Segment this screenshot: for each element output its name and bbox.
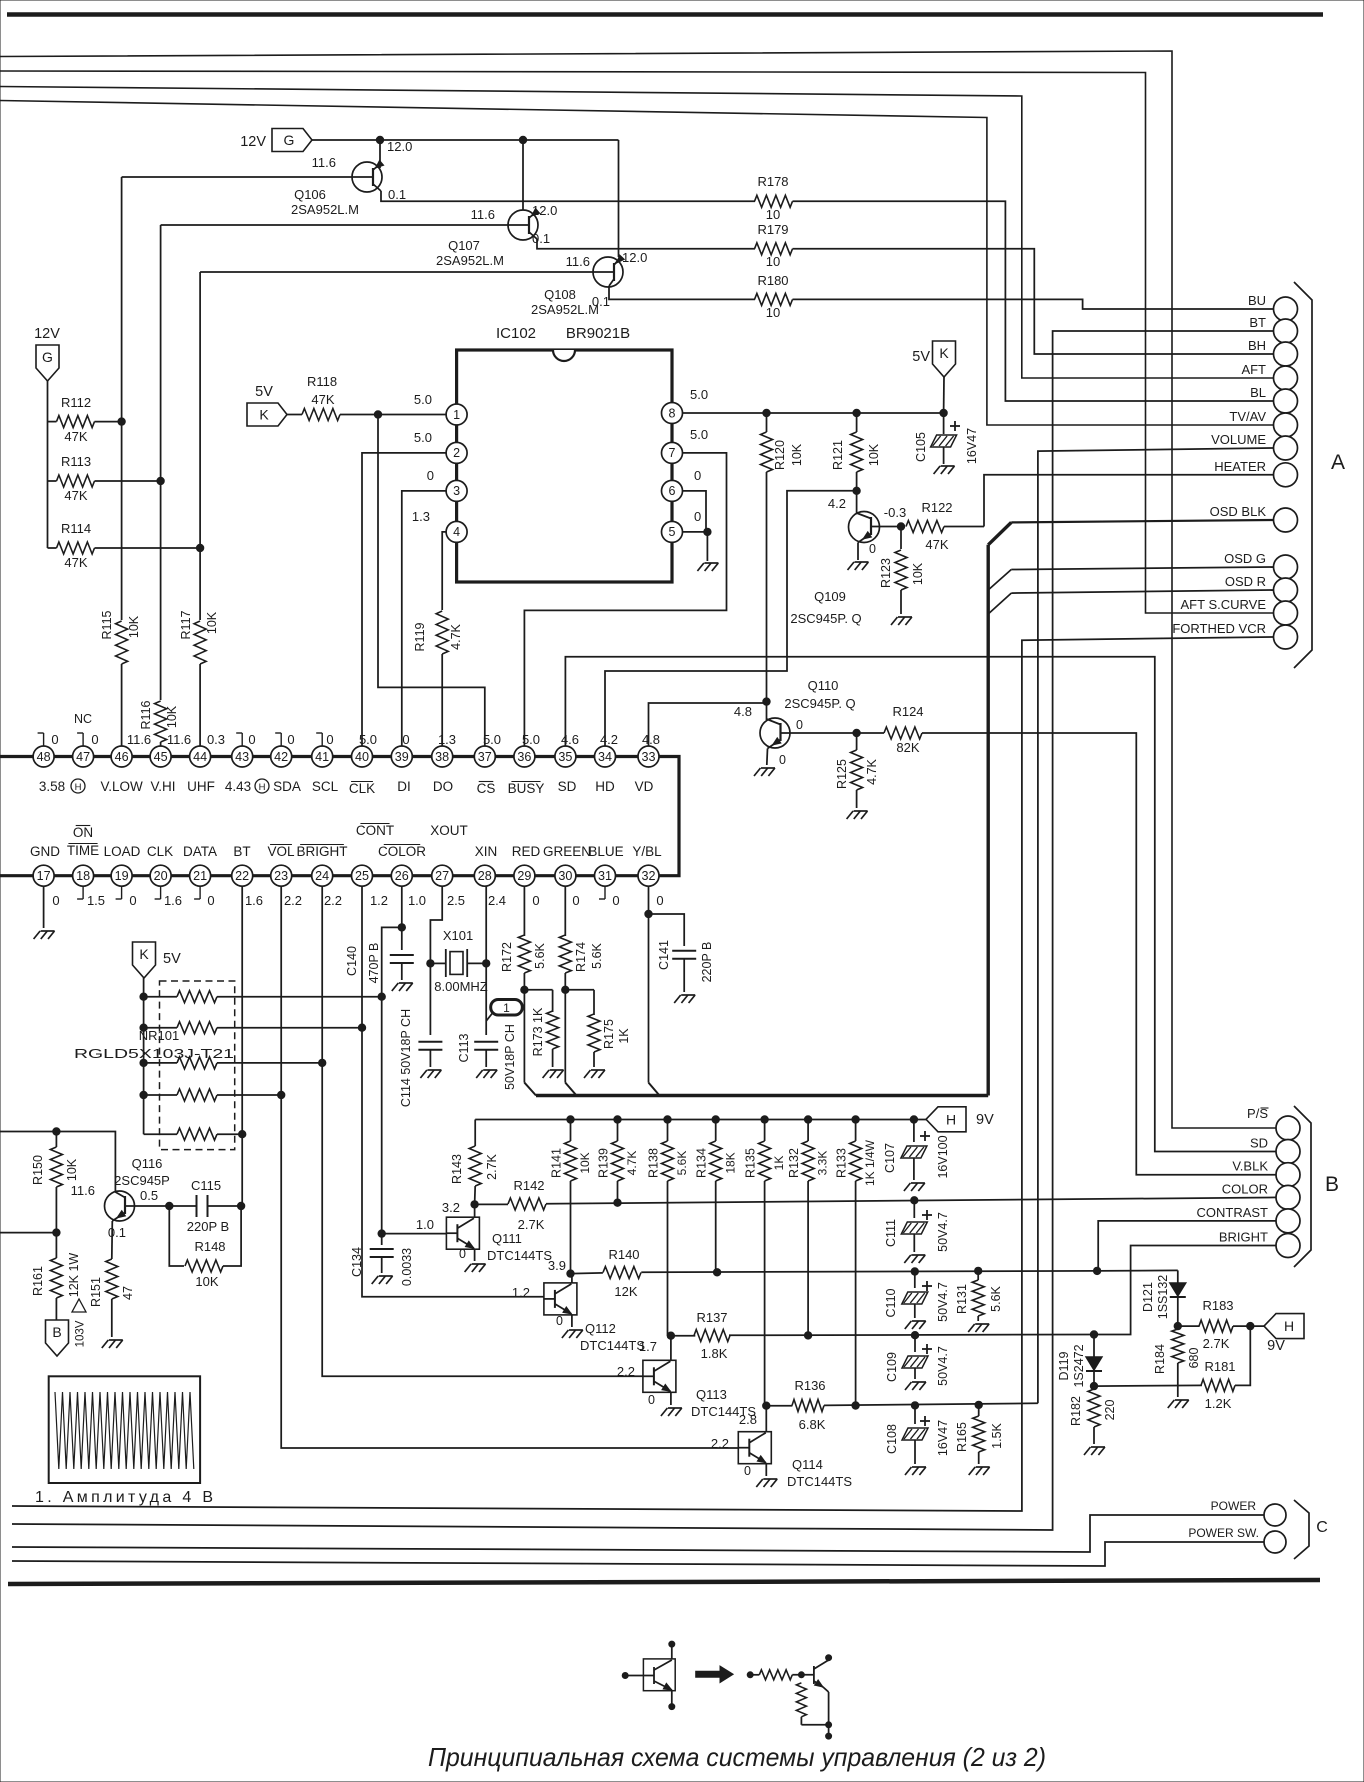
svg-text:11.6: 11.6 xyxy=(127,732,151,747)
svg-text:10K: 10K xyxy=(127,615,141,638)
svg-text:4.8: 4.8 xyxy=(642,732,660,747)
svg-text:3.3K: 3.3K xyxy=(816,1151,830,1176)
svg-text:0: 0 xyxy=(612,893,619,908)
svg-text:46: 46 xyxy=(115,750,129,764)
connector pin OSD BLK xyxy=(1274,508,1298,532)
connector pin BH xyxy=(1274,342,1298,366)
svg-text:32: 32 xyxy=(642,869,656,883)
connector A bracket xyxy=(1294,282,1312,668)
resistor R124 82K xyxy=(857,732,884,734)
capacitor C134 0.0033 xyxy=(378,1230,385,1237)
svg-text:R132: R132 xyxy=(787,1148,801,1178)
svg-text:0: 0 xyxy=(129,893,136,908)
svg-text:R138: R138 xyxy=(646,1148,660,1178)
ground (R175) xyxy=(584,1070,591,1078)
svg-text:R124: R124 xyxy=(892,704,923,719)
connector pin TV/AV xyxy=(1274,413,1298,437)
connector pin SD xyxy=(1276,1140,1300,1164)
svg-text:B: B xyxy=(52,1324,61,1340)
connector pin POWER SW xyxy=(1264,1531,1286,1553)
svg-text:4.8: 4.8 xyxy=(734,704,752,719)
wire: pin row 2 bus xyxy=(0,874,649,877)
resistor R114 47K xyxy=(57,542,95,554)
wire: CONTRAST node up to connector xyxy=(1097,1270,1098,1272)
wire: VOLUME line xyxy=(1038,448,1274,1403)
svg-text:R137: R137 xyxy=(696,1310,727,1325)
svg-text:1.0: 1.0 xyxy=(408,893,426,908)
svg-text:G: G xyxy=(42,349,53,365)
wire: UHF column (Q108 base to pin 44) xyxy=(200,271,593,273)
svg-text:50V4.7: 50V4.7 xyxy=(936,1212,950,1252)
svg-text:0: 0 xyxy=(779,753,786,767)
resistor NR101 element 3 xyxy=(140,1059,147,1066)
wire: pin row 1 bus xyxy=(0,755,649,758)
svg-text:4.6: 4.6 xyxy=(561,732,579,747)
pin 18 xyxy=(73,865,94,886)
svg-text:R179: R179 xyxy=(757,222,788,237)
connector pin FORTHED VCR xyxy=(1274,625,1298,649)
svg-text:18: 18 xyxy=(76,869,90,883)
wire: FORTHED VCR line xyxy=(12,637,1274,1511)
connector pin BRIGHT xyxy=(1276,1234,1300,1258)
svg-text:37: 37 xyxy=(478,750,492,764)
wire: R124 to V.BLK xyxy=(922,733,1276,1175)
svg-text:C114 50V18P CH: C114 50V18P CH xyxy=(399,1009,413,1107)
svg-text:0: 0 xyxy=(427,468,434,483)
resistor R173 1K xyxy=(524,989,552,991)
wire: Q111 collector node xyxy=(474,1204,476,1217)
wire: pin 26 COLOR column xyxy=(401,886,403,950)
pin 23 xyxy=(271,865,292,886)
svg-text:C111: C111 xyxy=(884,1219,898,1247)
svg-text:POWER: POWER xyxy=(1211,1499,1257,1513)
svg-text:10K: 10K xyxy=(165,705,179,728)
svg-text:Q107: Q107 xyxy=(448,238,480,253)
svg-text:2.7K: 2.7K xyxy=(1203,1336,1230,1351)
svg-text:5.0: 5.0 xyxy=(359,732,377,747)
wire: pin30 diagonal to OSD bus xyxy=(565,1083,576,1096)
wire: IC pin 8 5V rail xyxy=(683,412,944,414)
svg-text:10K: 10K xyxy=(195,1274,218,1289)
transistor Q108 2SA952L.M xyxy=(593,257,623,287)
svg-text:NC: NC xyxy=(74,712,92,726)
wire: top line 4 to TV/AV xyxy=(0,101,1274,426)
svg-text:10K: 10K xyxy=(578,1152,592,1173)
transistor Q113 DTC144TS xyxy=(643,1360,676,1392)
svg-text:R174: R174 xyxy=(574,942,588,972)
svg-text:1.3: 1.3 xyxy=(412,509,430,524)
svg-text:2.2: 2.2 xyxy=(711,1436,729,1451)
resistor R165 1.5K xyxy=(978,1405,980,1416)
wire: pin 28 XIN column xyxy=(485,886,487,1035)
resistor R138 5.6K xyxy=(664,1116,671,1123)
svg-text:47K: 47K xyxy=(311,392,334,407)
svg-text:4.2: 4.2 xyxy=(600,732,618,747)
resistor R140 12K / CONTRAST line xyxy=(571,1272,603,1275)
svg-text:R173 1K: R173 1K xyxy=(531,1007,545,1056)
pin 32 xyxy=(638,865,659,886)
svg-text:5V: 5V xyxy=(912,349,930,365)
svg-text:R143: R143 xyxy=(450,1154,464,1184)
svg-text:0: 0 xyxy=(694,468,701,483)
capacitor C105 16V47 xyxy=(943,413,945,434)
svg-text:FORTHED VCR: FORTHED VCR xyxy=(1172,621,1266,636)
wire: pin29 diagonal to OSD bus xyxy=(524,1083,536,1096)
svg-text:COLOR: COLOR xyxy=(378,844,426,859)
svg-text:CLK: CLK xyxy=(349,781,375,796)
wire: R121 node to pin 34 (HD) xyxy=(605,491,857,746)
svg-text:35: 35 xyxy=(558,750,572,764)
power tag K 5V (NR101) xyxy=(133,942,156,978)
svg-text:10K: 10K xyxy=(911,562,925,585)
svg-text:C110: C110 xyxy=(884,1288,898,1317)
svg-text:30: 30 xyxy=(558,869,572,883)
svg-text:SD: SD xyxy=(1250,1136,1268,1151)
svg-text:R121: R121 xyxy=(831,440,845,470)
svg-text:12V: 12V xyxy=(34,326,60,342)
svg-text:220P B: 220P B xyxy=(700,942,714,983)
svg-text:5.6K: 5.6K xyxy=(590,942,604,968)
svg-text:5.0: 5.0 xyxy=(414,392,432,407)
svg-text:0: 0 xyxy=(869,542,876,556)
resistor R148 10K xyxy=(169,1206,184,1266)
svg-text:DO: DO xyxy=(433,779,453,794)
svg-text:1: 1 xyxy=(503,1001,510,1015)
svg-text:POWER SW.: POWER SW. xyxy=(1188,1526,1259,1540)
pin 44 xyxy=(190,746,211,767)
svg-text:IC102: IC102 xyxy=(496,325,536,342)
svg-text:C: C xyxy=(1316,1519,1328,1536)
wire: IC pin 2 to pin 40 (CLK) xyxy=(362,453,446,746)
connector pin HEATER xyxy=(1274,463,1298,487)
resistor R172 5.6K xyxy=(518,935,530,973)
svg-text:2.7K: 2.7K xyxy=(485,1153,499,1179)
bus: OSD thick line xyxy=(536,1094,988,1097)
wire: IC pin 5 to ground xyxy=(683,531,708,533)
wire: V.HI column (Q107 base to pin 45) xyxy=(161,224,508,226)
svg-text:220: 220 xyxy=(1103,1400,1117,1421)
svg-text:BR9021B: BR9021B xyxy=(566,325,630,342)
svg-text:2.2: 2.2 xyxy=(284,893,302,908)
svg-text:41: 41 xyxy=(315,750,329,764)
svg-text:2.7K: 2.7K xyxy=(518,1217,545,1232)
ground (C111) xyxy=(904,1255,911,1263)
svg-text:0: 0 xyxy=(459,1247,466,1261)
resistor R179 10 xyxy=(755,243,793,255)
svg-text:ON: ON xyxy=(73,825,93,840)
svg-text:R183: R183 xyxy=(1202,1298,1233,1313)
svg-text:5V: 5V xyxy=(163,951,181,967)
capacitor C140 470P xyxy=(390,954,414,956)
svg-text:UHF: UHF xyxy=(187,779,215,794)
svg-text:R123: R123 xyxy=(879,558,893,588)
svg-text:BT: BT xyxy=(233,844,250,859)
svg-text:10: 10 xyxy=(766,207,780,222)
svg-text:Принципиальная схема системы у: Принципиальная схема системы управления … xyxy=(428,1742,1046,1772)
connector pin VOLUME xyxy=(1274,436,1298,460)
svg-text:24: 24 xyxy=(315,869,329,883)
wire: pin row bus right elbow xyxy=(649,757,680,876)
svg-text:HEATER: HEATER xyxy=(1214,459,1266,474)
svg-text:2SA952L.M: 2SA952L.M xyxy=(291,202,359,217)
svg-text:Q109: Q109 xyxy=(814,589,846,604)
svg-text:BT: BT xyxy=(1249,315,1266,330)
pin 27 xyxy=(432,865,453,886)
svg-text:48: 48 xyxy=(37,750,51,764)
svg-text:0: 0 xyxy=(402,732,409,747)
svg-text:5.6K: 5.6K xyxy=(675,1151,689,1176)
svg-text:C108: C108 xyxy=(885,1424,899,1454)
connector pin P/S xyxy=(1276,1116,1300,1140)
svg-text:2.5: 2.5 xyxy=(447,893,465,908)
svg-text:H: H xyxy=(259,782,266,793)
wire: pin 30 GREEN column xyxy=(564,886,566,936)
ground (Q112) xyxy=(562,1330,569,1338)
svg-text:47K: 47K xyxy=(64,429,87,444)
wire: R118 to IC pin 1 xyxy=(340,414,446,416)
waveform marker 1 (XIN) xyxy=(491,1000,523,1016)
pin 42 xyxy=(271,746,292,767)
svg-text:C141: C141 xyxy=(657,940,671,970)
svg-text:2.2: 2.2 xyxy=(617,1364,635,1379)
svg-text:COLOR: COLOR xyxy=(1222,1181,1268,1196)
pin 45 xyxy=(150,746,171,767)
ground (Q110 emitter) xyxy=(754,768,761,776)
wire: base line to Q116 xyxy=(0,1132,115,1193)
svg-text:0: 0 xyxy=(207,893,214,908)
svg-text:1.5: 1.5 xyxy=(87,893,105,908)
svg-text:16V47: 16V47 xyxy=(936,1420,950,1456)
pin 35 xyxy=(555,746,576,767)
svg-text:1K: 1K xyxy=(617,1028,631,1044)
svg-text:3.58: 3.58 xyxy=(39,779,65,794)
wire: Q106 collector to R178 xyxy=(381,191,755,201)
resistor R181 1.2K xyxy=(1094,1384,1202,1387)
svg-text:4.43: 4.43 xyxy=(225,779,251,794)
svg-text:28: 28 xyxy=(478,869,492,883)
svg-text:GREEN: GREEN xyxy=(543,844,591,859)
ground (R125) xyxy=(847,811,854,819)
wire: pin 23 VOL column to Q114 base xyxy=(281,886,738,1448)
svg-text:43: 43 xyxy=(235,750,249,764)
svg-text:R134: R134 xyxy=(694,1148,708,1178)
connector pin AFT S.CURVE xyxy=(1274,601,1298,625)
capacitor C107 16V100 xyxy=(910,1116,917,1123)
svg-text:TIME: TIME xyxy=(67,843,99,858)
svg-text:XOUT: XOUT xyxy=(430,823,468,838)
connector pin V.BLK xyxy=(1276,1163,1300,1187)
svg-text:0.1: 0.1 xyxy=(108,1225,126,1240)
svg-text:4.7K: 4.7K xyxy=(625,1151,639,1176)
svg-text:CONTRAST: CONTRAST xyxy=(1197,1205,1269,1220)
diode D119 1S2472 xyxy=(1093,1335,1095,1358)
capacitor C111 50V4.7 xyxy=(913,1200,915,1218)
ground (IC pin 5/6) xyxy=(697,563,704,571)
svg-text:OSD G: OSD G xyxy=(1224,551,1266,566)
wire: R179 to connector BH xyxy=(793,249,1274,354)
svg-text:11.6: 11.6 xyxy=(71,1183,95,1198)
svg-text:VD: VD xyxy=(635,779,654,794)
svg-text:33: 33 xyxy=(642,750,656,764)
warning triangle 103V xyxy=(72,1299,86,1312)
svg-text:-0.3: -0.3 xyxy=(884,505,906,520)
svg-text:R182: R182 xyxy=(1069,1396,1083,1426)
svg-text:9V: 9V xyxy=(1267,1338,1285,1354)
ground (C141) xyxy=(674,995,681,1003)
pin stubs (NC pins row 1) xyxy=(43,733,45,746)
resistor R180 10 xyxy=(755,293,793,305)
svg-text:5.6K: 5.6K xyxy=(989,1285,1003,1311)
svg-text:3.2: 3.2 xyxy=(442,1200,460,1215)
svg-text:V.HI: V.HI xyxy=(150,779,175,794)
wire: POWER SW line xyxy=(12,1542,1264,1566)
wire: Q114 emitter xyxy=(765,1464,767,1476)
wire: bottom thick border line xyxy=(8,1580,1320,1584)
ground (pin 17) xyxy=(34,931,41,939)
svg-text:V.BLK: V.BLK xyxy=(1232,1159,1268,1174)
ground (C105) xyxy=(934,466,941,474)
connector pin CONTRAST xyxy=(1276,1209,1300,1233)
connector pin COLOR xyxy=(1276,1185,1300,1209)
pin 37 xyxy=(474,746,495,767)
resistor R136 6.8K / VOLUME feed xyxy=(766,1405,792,1407)
ground (C134) xyxy=(372,1276,379,1284)
svg-text:12V: 12V xyxy=(240,134,266,150)
svg-text:4.7K: 4.7K xyxy=(449,623,463,649)
wire: Q107 collector to R179 xyxy=(537,239,755,249)
resistor R174 5.6K xyxy=(559,935,571,973)
svg-text:5: 5 xyxy=(669,525,676,539)
svg-text:0: 0 xyxy=(532,893,539,908)
svg-text:R140: R140 xyxy=(608,1247,639,1262)
svg-text:12K: 12K xyxy=(614,1284,637,1299)
svg-text:1.2: 1.2 xyxy=(370,893,388,908)
svg-text:R114: R114 xyxy=(61,521,91,536)
connector pin OSD R xyxy=(1274,578,1298,602)
svg-text:47K: 47K xyxy=(925,537,948,552)
svg-text:6: 6 xyxy=(669,484,676,498)
svg-text:11.6: 11.6 xyxy=(312,155,336,170)
svg-text:0: 0 xyxy=(91,732,98,747)
transistor Q114 DTC144TS xyxy=(738,1432,771,1464)
power tag H 9V (bottom) xyxy=(1264,1314,1304,1339)
svg-text:R150: R150 xyxy=(31,1155,45,1185)
svg-text:BUSY: BUSY xyxy=(508,781,545,796)
transistor Q107 2SA952L.M xyxy=(508,210,538,240)
svg-text:1.0: 1.0 xyxy=(416,1217,434,1232)
svg-text:R142: R142 xyxy=(513,1178,544,1193)
wire: IC pin 6 to ground xyxy=(683,491,707,532)
svg-text:DTC144TS: DTC144TS xyxy=(787,1474,852,1489)
wire: IC pin 7 to pin 36 (BUSY) xyxy=(524,453,726,746)
pin 40 xyxy=(352,746,373,767)
resistor R139 4.7K xyxy=(614,1116,621,1123)
svg-text:1SS132: 1SS132 xyxy=(1156,1275,1170,1320)
ground (R151) xyxy=(102,1340,109,1348)
svg-text:DATA: DATA xyxy=(183,844,217,859)
svg-text:R118: R118 xyxy=(307,374,337,389)
svg-text:680: 680 xyxy=(1187,1348,1201,1369)
svg-text:AFT S.CURVE: AFT S.CURVE xyxy=(1181,597,1267,612)
pin 24 xyxy=(312,865,333,886)
svg-text:CLK: CLK xyxy=(147,844,173,859)
svg-text:22: 22 xyxy=(235,869,249,883)
ground (Q111) xyxy=(465,1264,472,1272)
resistor R178 10 xyxy=(755,195,793,207)
svg-text:45: 45 xyxy=(154,750,168,764)
svg-text:CONT: CONT xyxy=(356,823,394,838)
capacitor C115 220P xyxy=(196,1195,198,1217)
svg-text:2SA952L.M: 2SA952L.M xyxy=(531,302,599,317)
wire: 9V rail xyxy=(475,1119,926,1121)
svg-text:BH: BH xyxy=(1248,338,1266,353)
resistor R133 1K 1/4W xyxy=(852,1116,859,1123)
svg-text:R133: R133 xyxy=(834,1148,848,1178)
svg-text:D119: D119 xyxy=(1057,1351,1071,1380)
svg-text:44: 44 xyxy=(193,750,207,764)
resistor R121 10K xyxy=(856,413,858,432)
svg-text:K: K xyxy=(259,407,269,423)
pin 17 xyxy=(33,865,54,886)
svg-text:2SC945P. Q: 2SC945P. Q xyxy=(784,696,855,711)
ground (C114) xyxy=(420,1070,427,1078)
svg-text:0: 0 xyxy=(656,893,663,908)
svg-text:R136: R136 xyxy=(794,1378,825,1393)
pin 26 xyxy=(391,865,412,886)
svg-text:1.6: 1.6 xyxy=(245,893,263,908)
legend: DTC transistor equivalence xyxy=(622,1673,628,1679)
svg-text:DTC144TS: DTC144TS xyxy=(580,1338,645,1353)
pin 46 xyxy=(111,746,132,767)
resistor R116 10K xyxy=(155,701,167,742)
capacitor C108 16V47 xyxy=(914,1405,916,1424)
svg-text:2SC945P. Q: 2SC945P. Q xyxy=(790,611,861,626)
svg-text:82K: 82K xyxy=(896,740,919,755)
svg-text:VOLUME: VOLUME xyxy=(1211,432,1266,447)
svg-text:R125: R125 xyxy=(835,759,849,789)
svg-text:26: 26 xyxy=(395,869,409,883)
wire: OSD BLK line xyxy=(1011,520,1273,522)
svg-text:1K: 1K xyxy=(772,1156,786,1171)
svg-text:1.2K: 1.2K xyxy=(1205,1396,1232,1411)
wire: top line 3 to AFT xyxy=(0,87,1274,379)
wire: pin 17 GND xyxy=(43,886,45,928)
resistor NR101 element 1 xyxy=(140,993,147,1000)
resistor R118 47K xyxy=(287,414,302,416)
pin 29 xyxy=(514,865,535,886)
pin 39 xyxy=(391,746,412,767)
resistor R112 47K xyxy=(57,416,95,428)
wire: OSD G tap xyxy=(988,570,1011,591)
svg-text:K: K xyxy=(139,946,149,962)
capacitor C113 50V18P xyxy=(474,1041,498,1043)
svg-text:0.3: 0.3 xyxy=(207,732,225,747)
transistor Q112 DTC144TS xyxy=(544,1283,577,1315)
svg-text:R184: R184 xyxy=(1153,1344,1167,1374)
pin 21 xyxy=(190,865,211,886)
svg-text:3.9: 3.9 xyxy=(548,1258,566,1273)
svg-text:2.8: 2.8 xyxy=(739,1412,757,1427)
wire: Q108 collector to R180 xyxy=(609,286,755,299)
svg-text:6.8K: 6.8K xyxy=(799,1417,826,1432)
svg-text:BLUE: BLUE xyxy=(588,844,623,859)
svg-text:19: 19 xyxy=(115,869,129,883)
svg-text:HD: HD xyxy=(595,779,615,794)
ground (C108) xyxy=(905,1467,912,1475)
svg-text:29: 29 xyxy=(517,869,531,883)
connector pin BU xyxy=(1274,297,1298,321)
wire: top line 1 to connector B P/S xyxy=(0,51,1276,1128)
